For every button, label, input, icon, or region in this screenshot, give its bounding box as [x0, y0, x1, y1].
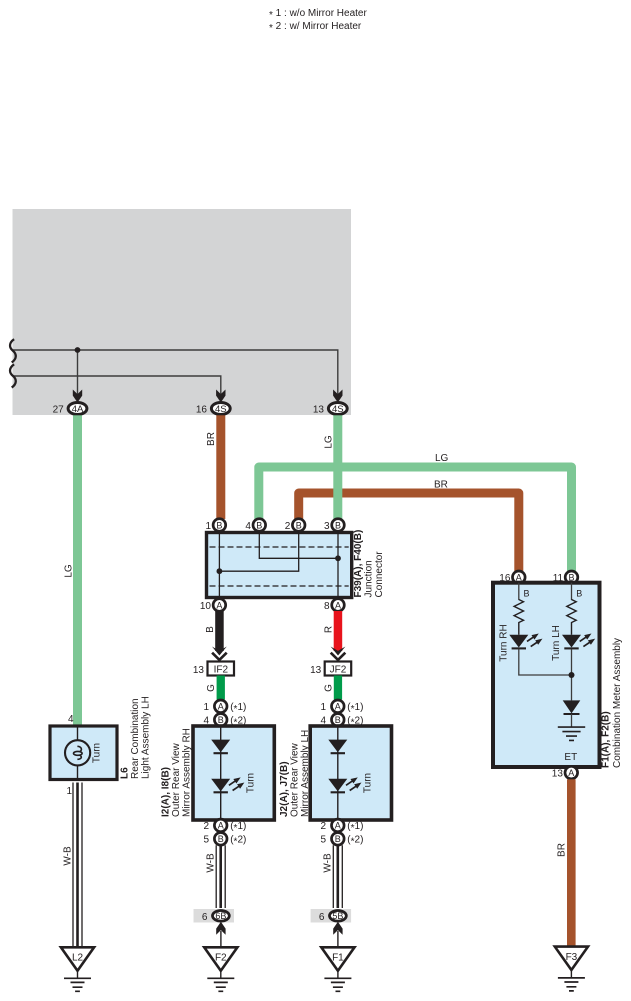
svg-text:Mirror Assembly LH: Mirror Assembly LH — [300, 730, 311, 817]
resistor RH — [514, 600, 523, 635]
connector 5B gray strip — [311, 909, 352, 923]
junction pin 1(B) — [205, 519, 225, 532]
wire R (red) 8A to JF2 — [331, 611, 346, 660]
wire BR horizontal to meter 16A with drop to junction 2B — [299, 493, 519, 571]
label LG horizontal — [435, 453, 449, 464]
ground F3 — [555, 947, 588, 991]
turn signal flasher block (gray ghost box) — [13, 209, 352, 415]
node: junction dot on upper run — [75, 347, 81, 353]
label Turn (L6) — [92, 743, 103, 763]
meter internal wire RH leg — [518, 583, 520, 600]
svg-text:B: B — [205, 626, 216, 633]
label LG right — [324, 435, 335, 449]
wire G JF2 to mirror LH — [334, 676, 342, 700]
svg-text:Turn RH: Turn RH — [499, 624, 510, 661]
label LG — [64, 564, 75, 578]
svg-text:B: B — [218, 715, 224, 725]
label Turn (LH mirror) — [363, 773, 374, 793]
svg-text:Rear Combination: Rear Combination — [130, 698, 141, 779]
svg-text:I2(A), I8(B): I2(A), I8(B) — [161, 767, 172, 817]
label 4 (L6 top pin) — [68, 714, 74, 725]
svg-text:4S: 4S — [332, 404, 344, 415]
svg-text:6: 6 — [319, 912, 325, 923]
svg-text:LG: LG — [435, 453, 449, 464]
svg-text:16: 16 — [196, 405, 208, 416]
connector 6B pin 6 — [202, 911, 229, 923]
svg-text:(*2): (*2) — [230, 835, 246, 848]
svg-text:Turn: Turn — [363, 773, 374, 793]
label W-B — [323, 853, 334, 873]
junction connector F39/F40 box — [207, 533, 352, 598]
svg-text:B: B — [335, 715, 341, 725]
label 1 (L6 bottom pin) — [66, 786, 72, 797]
connector 6B gray strip — [194, 909, 235, 923]
L6 bulb — [65, 740, 90, 765]
svg-text:(*1): (*1) — [230, 702, 246, 715]
junction internal wire pin4B branch — [259, 533, 338, 559]
LED Turn RH — [509, 631, 544, 649]
svg-text:F1(A), F2(B): F1(A), F2(B) — [601, 711, 612, 768]
svg-text:Turn LH: Turn LH — [551, 625, 562, 661]
wire LG from 4S-13 to junction pin 3B (drawn over BR) — [333, 415, 342, 519]
ground L2 — [61, 947, 94, 991]
svg-text:F3: F3 — [566, 952, 578, 963]
label L6 Rear Combination Light Assembly LH — [120, 696, 152, 779]
wire: upper horizontal run inside gray box — [13, 350, 338, 394]
junction pin 3(B) — [324, 519, 344, 532]
svg-text:5: 5 — [321, 835, 327, 846]
svg-text:L6: L6 — [120, 767, 131, 779]
wire: lower horizontal run inside gray box — [13, 376, 221, 394]
junction pin 2(B) — [285, 519, 305, 532]
svg-text:2: 2 — [285, 521, 291, 532]
svg-text:Connector: Connector — [374, 551, 385, 598]
label I2(A), I8(B) Outer Rear View Mirror Assembly RH — [161, 728, 193, 817]
ground F2 — [204, 947, 237, 991]
svg-text:13: 13 — [552, 768, 564, 779]
wire B (black) 10A to IF2 — [212, 611, 227, 660]
svg-text:BR: BR — [434, 480, 448, 491]
meter wire LH to diode — [571, 649, 573, 701]
label B (LH leg) — [576, 589, 582, 599]
svg-text:27: 27 — [53, 405, 65, 416]
mirror LH internal wire — [337, 726, 339, 820]
svg-text:A: A — [218, 821, 224, 831]
meter wire RH to common — [519, 649, 572, 675]
svg-text:Mirror Assembly RH: Mirror Assembly RH — [182, 728, 193, 817]
svg-text:B: B — [218, 834, 224, 844]
svg-text:L2: L2 — [72, 953, 84, 964]
junction internal wire pin2B branch — [219, 533, 298, 572]
svg-text:2: 2 — [203, 821, 209, 832]
L6 internal wire — [77, 726, 79, 780]
svg-text:1: 1 — [66, 786, 72, 797]
svg-text:B: B — [335, 520, 341, 530]
arrow into 4S pin 13 — [333, 390, 342, 403]
connector 4S pin 16 — [196, 402, 230, 415]
resistor LH — [567, 600, 576, 635]
svg-text:13: 13 — [310, 665, 322, 676]
connector 4S pin 13 — [313, 402, 347, 415]
svg-text:J2(A), J7(B): J2(A), J7(B) — [279, 761, 290, 817]
combination meter assembly box — [493, 583, 600, 767]
connector 4A pin 27 — [53, 402, 87, 415]
mirror RH LED with arrows — [211, 775, 246, 793]
junction internal bus dashed lower — [210, 585, 349, 587]
wire BR from 4S-16 to junction pin 1B — [216, 415, 225, 519]
combination meter pin 11(B) — [553, 571, 578, 584]
mirror RH pin 1(A)(*1) — [203, 700, 246, 715]
svg-text:B: B — [524, 589, 530, 599]
svg-text:BR: BR — [206, 432, 217, 446]
svg-text:5: 5 — [203, 835, 209, 846]
mirror RH pin 4(B)(*2) — [203, 714, 246, 729]
svg-text:Turn: Turn — [92, 743, 103, 763]
wire W-B below mirror LH — [333, 845, 342, 908]
svg-text:* 2 : w/ Mirror Heater: * 2 : w/ Mirror Heater — [269, 21, 362, 34]
svg-text:W-B: W-B — [323, 853, 334, 873]
label W-B — [62, 846, 73, 866]
svg-text:R: R — [324, 626, 335, 633]
svg-text:Light Assembly LH: Light Assembly LH — [141, 696, 152, 779]
svg-text:4: 4 — [245, 521, 251, 532]
junction pin 4(B) — [245, 519, 265, 532]
label Turn RH — [499, 624, 510, 661]
svg-text:(*1): (*1) — [230, 821, 246, 834]
mirror LH pin 4(B)(*2) — [321, 714, 364, 729]
svg-text:(*1): (*1) — [347, 821, 363, 834]
svg-text:B: B — [216, 520, 222, 530]
mirror RH internal wire — [220, 726, 222, 820]
svg-text:B: B — [576, 589, 582, 599]
note: *1 w/o Mirror Heater — [269, 8, 367, 21]
LED Turn LH — [562, 631, 597, 649]
svg-text:ET: ET — [564, 752, 577, 763]
wire LG horizontal to meter 11B with drop to junction 4B — [259, 467, 572, 571]
svg-text:1: 1 — [321, 702, 327, 713]
arrow into 4A — [73, 390, 82, 403]
mirror LH diode 1 — [328, 740, 347, 754]
junction internal wire pin1B to pin10A — [218, 533, 220, 598]
svg-text:1: 1 — [203, 702, 209, 713]
arrow up into 5B + lead — [333, 922, 342, 947]
node dot pin2-pin1 — [217, 568, 223, 574]
svg-text:(*1): (*1) — [347, 702, 363, 715]
svg-text:6: 6 — [202, 912, 208, 923]
break symbol upper — [10, 339, 16, 362]
connector 5B pin 6 — [319, 911, 346, 923]
wire W-B below L6 — [73, 783, 82, 948]
svg-text:(*2): (*2) — [347, 835, 363, 848]
junction pin 10(A) — [200, 599, 226, 612]
arrow up into 6B + lead — [216, 922, 225, 947]
wire G IF2 to mirror RH — [217, 676, 225, 700]
junction pin 8(A) — [324, 599, 344, 612]
svg-text:B: B — [335, 834, 341, 844]
node dot common — [569, 672, 575, 678]
label ET — [564, 752, 577, 763]
svg-text:4: 4 — [68, 714, 74, 725]
meter diode — [563, 700, 581, 727]
svg-text:* 1 : w/o Mirror Heater: * 1 : w/o Mirror Heater — [269, 8, 367, 21]
break symbol lower — [10, 364, 16, 387]
meter internal wire LH leg — [571, 583, 573, 600]
label BR — [206, 432, 217, 446]
label G — [206, 684, 217, 692]
mirror RH diode 1 — [211, 740, 230, 754]
svg-text:3: 3 — [324, 521, 330, 532]
svg-text:4S: 4S — [215, 404, 227, 415]
node dot pin4-pin3 — [335, 555, 341, 561]
svg-text:5B: 5B — [332, 911, 343, 921]
mirror assembly RH box — [193, 726, 274, 820]
mirror LH pin 2(A)(*1) — [321, 819, 364, 834]
meter internal ground — [558, 727, 585, 740]
svg-text:6B: 6B — [215, 911, 226, 921]
mirror RH pin 5(B)(*2) — [203, 833, 246, 848]
mirror LH LED with arrows — [328, 775, 363, 793]
label F1(A), F2(B) Combination Meter Assembly — [601, 638, 624, 768]
label BR horizontal — [434, 480, 448, 491]
svg-text:13: 13 — [193, 665, 205, 676]
ground F1 — [321, 947, 354, 991]
svg-text:8: 8 — [324, 601, 330, 612]
svg-text:LG: LG — [64, 564, 75, 578]
svg-text:JF2: JF2 — [330, 664, 347, 675]
svg-text:B: B — [256, 520, 262, 530]
svg-text:A: A — [335, 600, 341, 610]
svg-text:F2: F2 — [215, 953, 227, 964]
svg-text:Turn: Turn — [246, 773, 257, 793]
mirror LH pin 5(B)(*2) — [321, 833, 364, 848]
junction internal bus dashed upper — [210, 546, 349, 548]
label Turn (RH mirror) — [246, 773, 257, 793]
mirror assembly LH box — [310, 726, 391, 820]
svg-text:G: G — [323, 684, 334, 692]
svg-text:1: 1 — [205, 521, 211, 532]
svg-text:2: 2 — [321, 821, 327, 832]
junction internal wire pin3B to pin8A — [337, 533, 339, 598]
svg-text:IF2: IF2 — [214, 664, 229, 675]
label G — [323, 684, 334, 692]
svg-text:W-B: W-B — [206, 853, 217, 873]
svg-text:A: A — [568, 768, 574, 778]
label B — [205, 626, 216, 633]
svg-text:G: G — [206, 684, 217, 692]
label Turn LH — [551, 625, 562, 661]
combination meter pin 16(A) — [499, 571, 525, 584]
svg-text:BR: BR — [557, 843, 568, 857]
svg-text:4A: 4A — [72, 404, 84, 415]
svg-text:W-B: W-B — [62, 846, 73, 866]
mirror LH pin 1(A)(*1) — [321, 700, 364, 715]
note: *2 w/ Mirror Heater — [269, 21, 362, 34]
label F39(A),F40(B) Junction Connector — [353, 530, 385, 598]
svg-text:B: B — [296, 520, 302, 530]
svg-text:Junction: Junction — [364, 560, 375, 597]
wire: branch down to 4A — [77, 350, 79, 394]
label W-B — [206, 853, 217, 873]
svg-text:F39(A), F40(B): F39(A), F40(B) — [353, 530, 364, 598]
wire LG from 4A to L6 — [73, 415, 82, 726]
wire W-B below mirror RH — [216, 845, 225, 908]
rear combination light L6 box — [50, 726, 117, 780]
svg-text:10: 10 — [200, 601, 212, 612]
combination meter pin 13(A) — [552, 766, 578, 779]
svg-text:Outer Rear View: Outer Rear View — [171, 742, 182, 817]
label R — [324, 626, 335, 633]
label BR — [557, 843, 568, 857]
svg-text:A: A — [335, 821, 341, 831]
svg-text:13: 13 — [313, 405, 325, 416]
wire BR meter to F3 — [567, 779, 576, 946]
connector JF2 — [310, 662, 351, 676]
svg-text:A: A — [218, 702, 224, 712]
svg-text:A: A — [216, 600, 222, 610]
svg-text:Outer Rear View: Outer Rear View — [290, 742, 301, 817]
svg-text:Combination Meter Assembly: Combination Meter Assembly — [612, 638, 623, 768]
label J2(A), J7(B) Outer Rear View Mirror Assembly LH — [279, 730, 311, 817]
svg-text:A: A — [335, 702, 341, 712]
connector IF2 — [193, 662, 234, 676]
label B (RH leg) — [524, 589, 530, 599]
svg-text:LG: LG — [324, 435, 335, 449]
arrow into 4S pin 16 — [216, 390, 225, 403]
svg-text:F1: F1 — [332, 953, 344, 964]
mirror RH pin 2(A)(*1) — [203, 819, 246, 834]
